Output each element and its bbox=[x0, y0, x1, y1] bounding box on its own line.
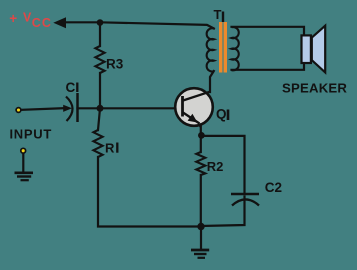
svg-text:R3: R3 bbox=[106, 56, 124, 71]
svg-text:T: T bbox=[214, 7, 222, 22]
svg-text:SPEAKER: SPEAKER bbox=[282, 81, 347, 96]
svg-text:V: V bbox=[23, 10, 32, 24]
svg-text:+: + bbox=[9, 11, 17, 26]
svg-text:CC: CC bbox=[32, 16, 52, 30]
svg-text:C2: C2 bbox=[265, 180, 282, 195]
svg-text:INPUT: INPUT bbox=[10, 126, 53, 141]
svg-text:C: C bbox=[66, 80, 76, 95]
svg-text:R2: R2 bbox=[207, 159, 224, 174]
svg-text:Q: Q bbox=[216, 107, 227, 122]
svg-text:R: R bbox=[105, 141, 115, 156]
